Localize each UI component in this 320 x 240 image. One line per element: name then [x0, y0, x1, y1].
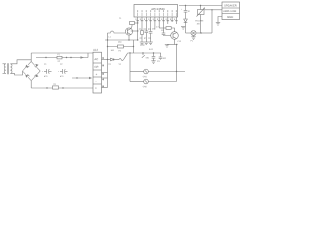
svg-text:C9: C9: [157, 60, 160, 63]
svg-text:CN2: CN2: [143, 85, 148, 88]
svg-text:250: 250: [118, 41, 122, 44]
svg-text:S1: S1: [118, 63, 121, 66]
svg-text:5: 5: [103, 85, 104, 88]
svg-text:47: 47: [144, 37, 147, 40]
svg-text:T1: T1: [119, 17, 122, 20]
svg-text:AC: AC: [94, 57, 98, 61]
svg-text:+: +: [42, 70, 44, 73]
svg-text:C2: C2: [60, 63, 63, 66]
svg-text:AMPL/LINE: AMPL/LINE: [223, 10, 236, 13]
svg-text:SW: SW: [145, 57, 148, 60]
svg-text:F2: F2: [118, 49, 121, 52]
svg-text:GR: GR: [94, 66, 98, 69]
svg-text:PL: PL: [191, 40, 194, 43]
svg-text:C8: C8: [161, 29, 164, 32]
svg-text:10: 10: [188, 10, 191, 13]
svg-text:R1: R1: [53, 83, 56, 86]
svg-text:100: 100: [110, 49, 114, 52]
svg-text:3: 3: [103, 73, 104, 76]
svg-text:CN1: CN1: [143, 75, 148, 78]
svg-text:4: 4: [103, 78, 104, 81]
svg-text:F1: F1: [57, 53, 60, 56]
svg-text:470: 470: [60, 75, 64, 78]
svg-text:C1: C1: [44, 63, 47, 66]
svg-text:2: 2: [103, 64, 104, 67]
svg-text:2200: 2200: [140, 44, 145, 47]
svg-text:100: 100: [162, 57, 166, 60]
svg-text:A13: A13: [93, 49, 98, 52]
svg-text:C12: C12: [178, 40, 183, 43]
svg-text:SPEAKER: SPEAKER: [224, 5, 237, 8]
svg-text:D1: D1: [108, 63, 111, 66]
svg-text:+: +: [181, 8, 183, 11]
svg-text:470: 470: [44, 75, 48, 78]
svg-text:2A: 2A: [57, 60, 60, 63]
svg-text:0.02: 0.02: [149, 48, 154, 51]
svg-text:+: +: [58, 70, 60, 73]
svg-text:1: 1: [103, 57, 104, 60]
svg-text:10k: 10k: [197, 22, 200, 25]
svg-text:uPC1353C: uPC1353C: [151, 7, 165, 11]
svg-text:VOLUME: VOLUME: [195, 19, 204, 22]
svg-text:GND: GND: [227, 15, 233, 19]
svg-text:-: -: [95, 79, 96, 83]
svg-text:+: +: [95, 72, 97, 76]
svg-text:L1: L1: [109, 35, 112, 38]
